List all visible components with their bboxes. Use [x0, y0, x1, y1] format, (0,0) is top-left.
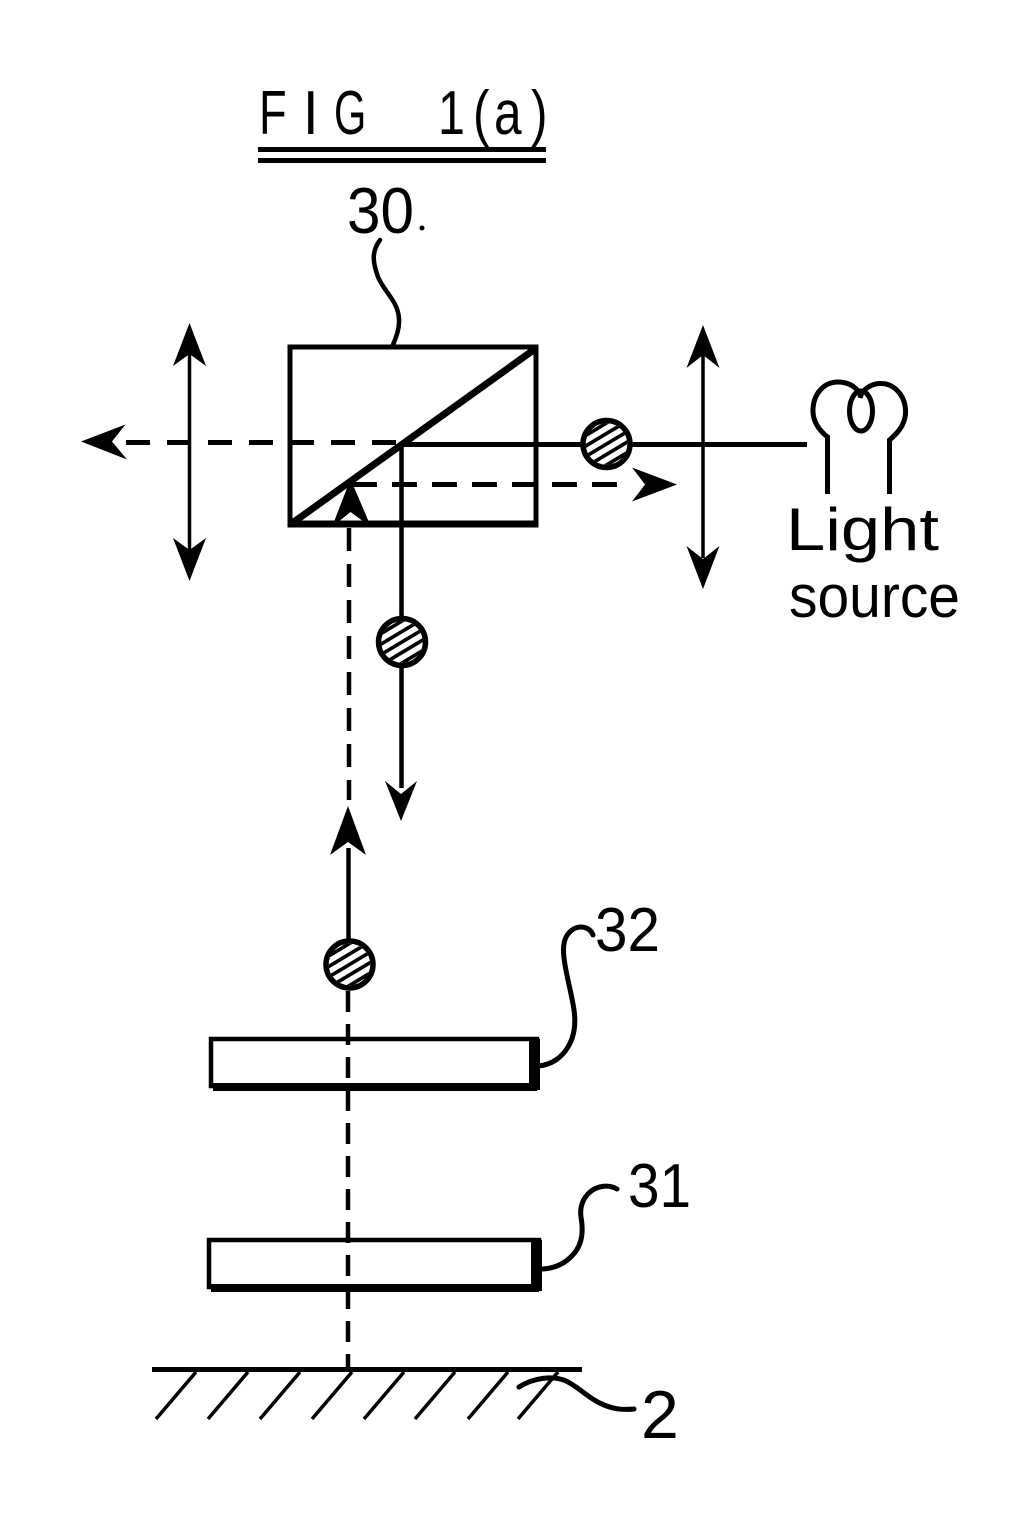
svg-text:): ) — [531, 78, 548, 148]
svg-text:31: 31 — [628, 1152, 691, 1221]
leader squiggle 31 — [543, 1186, 617, 1269]
dashed vertical return beam below cube — [347, 528, 352, 800]
leader squiggle 32 — [538, 927, 593, 1066]
leader squiggle from 30 to cube — [374, 240, 399, 347]
ground surface 2 — [152, 1367, 582, 1372]
hatched circle on source beam — [577, 416, 637, 472]
up arrowhead on return beam — [330, 806, 366, 855]
left vertical double arrow — [173, 323, 206, 581]
svg-text:Light: Light — [786, 496, 939, 563]
leader squiggle 2 — [519, 1378, 634, 1410]
right arrowhead — [632, 468, 677, 502]
svg-text:2: 2 — [641, 1377, 679, 1453]
svg-text:source: source — [789, 563, 960, 630]
beam splitter cube 30 — [290, 347, 536, 525]
small dot after 30 — [420, 226, 425, 231]
cube bottom edge thick — [290, 521, 536, 528]
hatched circle on return beam — [320, 937, 380, 993]
svg-text:a: a — [494, 78, 522, 148]
plate 32 — [211, 1039, 540, 1090]
cube diagonal — [291, 349, 535, 524]
solid segment below up arrow — [346, 848, 351, 940]
svg-text:30: 30 — [347, 174, 414, 247]
title FIG 1(a) — [259, 78, 548, 148]
svg-text:F: F — [259, 78, 287, 148]
svg-text:(: ( — [473, 78, 490, 148]
right vertical double arrow — [687, 325, 720, 589]
solid beam to light source y=444 — [403, 442, 807, 447]
dashed vertical beam to ground — [346, 991, 351, 1368]
dashed beam leftward y=442 — [126, 440, 406, 445]
down arrowhead — [385, 781, 417, 821]
svg-text:32: 32 — [595, 896, 660, 965]
left arrowhead — [81, 425, 127, 460]
filled up arrow inside cube — [332, 479, 371, 527]
plate 31 — [209, 1240, 542, 1291]
svg-text:1: 1 — [438, 78, 465, 147]
ground hatching — [156, 1372, 558, 1419]
svg-text:G: G — [334, 79, 366, 148]
svg-text:I: I — [303, 79, 319, 147]
lamp symbol (light source) — [813, 382, 906, 494]
title double underline — [258, 150, 546, 161]
dashed reflected beam rightward y=484 — [352, 482, 630, 487]
hatched circle on downward beam — [372, 614, 432, 670]
solid downward beam x=402 — [399, 444, 404, 788]
